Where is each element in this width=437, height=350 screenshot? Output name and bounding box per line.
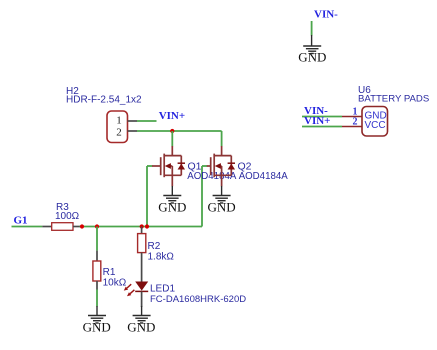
wire Q1 gate horizontal <box>147 165 152 167</box>
svg-text:AOD4184A: AOD4184A <box>187 171 237 182</box>
svg-text:1: 1 <box>116 115 122 127</box>
U6 pin 1 <box>342 116 362 118</box>
wire Q2 gate riser <box>201 166 203 227</box>
Q1 source arrow <box>165 163 171 169</box>
U6 body <box>362 107 388 137</box>
svg-text:GND: GND <box>298 50 326 65</box>
svg-text:VIN-: VIN- <box>314 9 338 21</box>
wire Q1 gate riser <box>146 166 148 227</box>
wire Q2 drain riser <box>221 131 223 146</box>
Q2 body diode <box>228 164 235 170</box>
R2 pin top <box>141 227 143 234</box>
Q2 source arrow <box>215 163 221 169</box>
R1 pin top <box>96 251 98 262</box>
LED1 cathode bar <box>135 290 148 292</box>
junction dot R1 branch <box>95 224 99 228</box>
R3 pin right <box>73 226 80 228</box>
svg-text:10kΩ: 10kΩ <box>103 277 127 288</box>
svg-text:VIN+: VIN+ <box>159 110 185 122</box>
wire G1 to R3 <box>12 226 43 228</box>
svg-text:2: 2 <box>353 117 358 128</box>
ground below LED1 <box>133 306 151 323</box>
LED1 triangle <box>135 282 148 291</box>
R1 pin bottom <box>96 281 98 290</box>
ground below Q2 <box>213 186 231 203</box>
R3 pin left <box>42 226 52 228</box>
U6 pin 2 <box>342 126 362 128</box>
svg-text:GND: GND <box>127 320 155 335</box>
H2 pin 1 <box>128 120 138 122</box>
ground below R1 <box>88 306 106 323</box>
svg-text:VIN+: VIN+ <box>304 115 330 127</box>
junction dot R2 branch <box>140 224 144 228</box>
resistor R2 body <box>138 234 146 253</box>
svg-text:VCC: VCC <box>365 120 386 131</box>
svg-text:G1: G1 <box>14 215 28 227</box>
svg-text:R2: R2 <box>148 241 161 252</box>
LED1 pin bottom <box>141 291 143 307</box>
wire VIN- to U6 pin 1 <box>302 116 342 118</box>
junction dot at Q1 drain branch <box>170 129 174 133</box>
H2 pin 2 <box>128 130 138 132</box>
svg-text:FC-DA1608HRK-620D: FC-DA1608HRK-620D <box>150 294 246 305</box>
svg-text:100Ω: 100Ω <box>55 211 80 222</box>
svg-text:GND: GND <box>158 200 186 215</box>
svg-text:AOD4184A: AOD4184A <box>239 171 289 182</box>
wire H2 pin2 horizontal <box>137 130 222 132</box>
svg-text:LED1: LED1 <box>150 283 175 294</box>
wire VIN+ to U6 pin 2 <box>302 126 342 128</box>
wire green riser to top ground <box>311 21 313 36</box>
svg-text:GND: GND <box>83 320 111 335</box>
svg-text:BATTERY PADS: BATTERY PADS <box>358 94 429 105</box>
wire Q1 drain riser <box>171 131 173 146</box>
H2 body <box>107 111 128 143</box>
wire R1 top <box>96 227 98 251</box>
transistor Q2 <box>207 146 232 186</box>
R2 pin bottom / wire to LED <box>141 253 143 282</box>
junction dot Q1 gate branch <box>145 224 149 228</box>
junction dot after R3 <box>80 224 84 228</box>
transistor Q1 <box>152 146 181 186</box>
resistor R1 body <box>93 261 101 281</box>
LED1 emission arrows <box>124 284 135 296</box>
resistor R3 body <box>52 223 73 231</box>
svg-text:GND: GND <box>208 200 236 215</box>
svg-text:HDR-F-2.54_1x2: HDR-F-2.54_1x2 <box>66 95 142 106</box>
wire Q2 gate horizontal <box>202 165 207 167</box>
ground below Q1 <box>163 186 181 203</box>
svg-text:2: 2 <box>116 126 122 138</box>
ground top-right <box>303 35 321 54</box>
wire R1 to ground <box>96 290 98 307</box>
wire H2 pin1 VIN+ <box>137 120 157 122</box>
wire R3 to branches <box>80 226 203 228</box>
svg-text:1.8kΩ: 1.8kΩ <box>148 252 175 263</box>
Q1 body diode <box>178 164 185 170</box>
